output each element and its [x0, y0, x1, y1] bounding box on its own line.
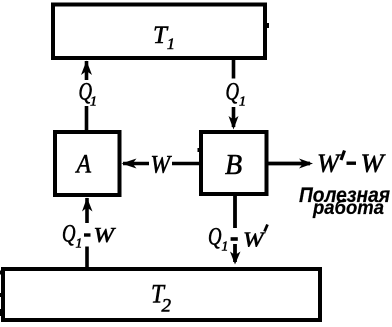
- svg-text:W: W: [317, 149, 341, 178]
- svg-text:Q: Q: [62, 221, 76, 248]
- svg-text:1: 1: [76, 236, 83, 251]
- wire arrow up into A bottom: [85, 198, 89, 223]
- label Q1-W' right: minus: [231, 237, 238, 241]
- svg-text:W: W: [361, 149, 386, 178]
- svg-text:W: W: [151, 152, 173, 179]
- svg-text:T1: T1: [153, 22, 175, 53]
- wire W arrowhead into A: [123, 162, 149, 166]
- wire Q1 right segment from T1: [232, 60, 236, 79]
- wire arrow down into T2: [233, 244, 237, 262]
- wire Q1 left arrow up into T1: [85, 61, 89, 80]
- reservoir T2 box: [3, 269, 320, 320]
- wire W'-W arrow out of B: [267, 162, 310, 166]
- tick marks on T2 left edge: [0, 271, 2, 275]
- wire Q1 left lower segment to engine A: [85, 106, 89, 132]
- svg-text:1: 1: [239, 95, 246, 110]
- svg-text:Q: Q: [226, 79, 240, 106]
- engine A box: [55, 132, 120, 195]
- svg-text:W: W: [94, 223, 117, 247]
- bump on T1 right edge: [266, 23, 269, 28]
- reservoir T1 box: [53, 5, 265, 59]
- wire W from B to label: [172, 162, 201, 166]
- svg-text:1: 1: [222, 239, 229, 254]
- svg-text:1: 1: [90, 95, 97, 110]
- svg-text:Q: Q: [208, 224, 222, 251]
- wire arrow down into engine B: [232, 107, 236, 127]
- svg-text:2: 2: [162, 296, 172, 317]
- svg-text:B: B: [225, 150, 242, 181]
- wire from B bottom down: [233, 194, 237, 228]
- label Q1-W' right: prime: [265, 225, 268, 232]
- svg-text:работа: работа: [312, 197, 384, 219]
- svg-text:W: W: [243, 228, 266, 252]
- engine B box: [201, 132, 267, 194]
- wire from label down to T2: [85, 247, 89, 268]
- svg-text:A: A: [75, 150, 91, 179]
- bump on B left edge: [198, 148, 201, 152]
- label Q1-W left: minus: [84, 233, 91, 236]
